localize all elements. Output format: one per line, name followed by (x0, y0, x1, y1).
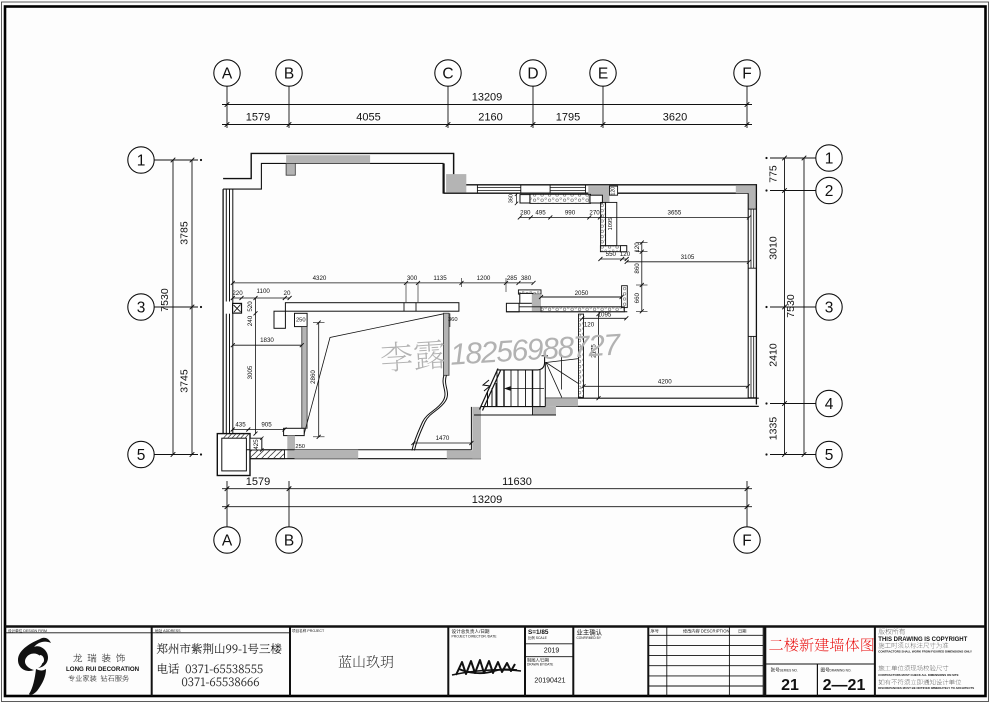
svg-text:2160: 2160 (478, 112, 502, 124)
svg-text:C: C (442, 66, 453, 83)
svg-text:S=1/85: S=1/85 (528, 629, 549, 636)
wall: right exterior wall (755, 184, 757, 404)
wall: gray pier left of lower landing (472, 407, 481, 459)
wall: top-left room inner outline (223, 163, 444, 189)
dim 1095 under cabinet (582, 317, 626, 319)
stair direction arrow (504, 386, 511, 391)
svg-text:3010: 3010 (768, 236, 780, 260)
dim 3105 (627, 261, 749, 263)
wall: 360 gray stub under beam right end (444, 313, 450, 375)
svg-text:THIS DRAWING IS COPYRIGHT: THIS DRAWING IS COPYRIGHT (878, 637, 967, 643)
svg-text:4: 4 (825, 396, 834, 413)
dim vertical 520/240/3005 (255, 298, 257, 434)
bottom axis circles A,B,F (214, 527, 240, 553)
wall: foot of E-wall (hatched) (600, 246, 626, 252)
svg-text:120: 120 (584, 322, 595, 329)
wall: gray corner top-right (F) (736, 186, 757, 193)
svg-text:1100: 1100 (257, 288, 271, 295)
copyright cell (879, 628, 905, 634)
svg-text:905: 905 (261, 422, 272, 429)
stair treads (496, 370, 498, 407)
gray step under stairs (533, 406, 557, 414)
wall: top-left room outer outline (223, 153, 454, 184)
svg-text:3005: 3005 (247, 365, 254, 379)
cabinet: right vertical panel (622, 286, 628, 308)
dim 1830 (233, 344, 302, 346)
window break / pier at row 3 on left wall (224, 302, 232, 314)
existing wall diagonal-hatched segment (250, 450, 285, 459)
wall: gray corner block left of kitchen (446, 174, 466, 192)
svg-text:7530: 7530 (159, 288, 171, 312)
svg-text:修改内容 DESCRIPTION: 修改内容 DESCRIPTION (683, 628, 730, 635)
svg-text:2860: 2860 (310, 370, 317, 384)
svg-text:3620: 3620 (663, 112, 687, 124)
left axis circles 1,3,5 (128, 147, 154, 173)
dim 2860 (318, 323, 320, 437)
window: right wall window 1 (750, 209, 752, 268)
right dimension lines (784, 158, 786, 455)
gray bottom wall segment (295, 450, 359, 459)
svg-text:3745: 3745 (179, 369, 191, 393)
svg-text:1795: 1795 (556, 112, 580, 124)
svg-text:7530: 7530 (785, 294, 797, 318)
svg-text:DISCREPANCIES MUST BE NOTIFIED: DISCREPANCIES MUST BE NOTIFIED IMMEDIATE… (878, 686, 974, 690)
sight-line diagonals across living room (304, 314, 443, 434)
svg-text:D: D (527, 66, 538, 83)
svg-text:序号: 序号 (651, 628, 659, 635)
svg-text:3655: 3655 (668, 209, 682, 216)
svg-text:4200: 4200 (658, 378, 672, 385)
svg-text:220: 220 (232, 290, 243, 297)
svg-text:270: 270 (589, 209, 600, 216)
svg-text:300: 300 (407, 275, 418, 282)
svg-text:250: 250 (296, 317, 306, 323)
svg-text:775: 775 (768, 165, 780, 183)
svg-text:1830: 1830 (260, 337, 274, 344)
wall: bottom band of right room (545, 397, 759, 399)
wall: end post right (white box in gray) (590, 195, 602, 203)
cabinet: top mini rect (518, 290, 541, 294)
svg-text:PROJECT DIRECTOR /DATE: PROJECT DIRECTOR /DATE (452, 634, 498, 638)
svg-text:425: 425 (253, 439, 260, 450)
svg-text:21: 21 (781, 677, 799, 694)
wall: 250 interior gray wall (302, 327, 307, 429)
dim 1470 (413, 442, 471, 444)
svg-text:E: E (598, 66, 608, 83)
lower flight treads (487, 392, 489, 407)
svg-text:DRAWING NO.: DRAWING NO. (830, 669, 852, 673)
svg-text:地址 ADDRESS: 地址 ADDRESS (155, 628, 181, 633)
dim row above beam: 4320/300/1135/1200/285/380 (233, 282, 534, 284)
svg-text:1135: 1135 (433, 275, 447, 282)
svg-text:B: B (284, 66, 294, 83)
svg-text:CONFIRMED BY: CONFIRMED BY (577, 636, 602, 640)
svg-text:860: 860 (634, 263, 641, 274)
svg-text:1579: 1579 (246, 476, 270, 488)
svg-text:1579: 1579 (246, 112, 270, 124)
hatch on flue top band (224, 434, 250, 438)
wall: small box with 120 label (610, 186, 618, 195)
window: kitchen window 1 (477, 187, 520, 189)
wall: end post left (520, 195, 530, 203)
svg-text:设计单位 DESIGN FIRM: 设计单位 DESIGN FIRM (8, 628, 47, 633)
dim 4200 (584, 385, 748, 387)
svg-text:280: 280 (520, 209, 531, 216)
wall: bottom band of left room (246, 449, 471, 451)
window: right wall window 2 (750, 336, 752, 397)
svg-text:F: F (742, 533, 751, 550)
wall: stair right new wall (hatched) (579, 314, 584, 397)
column box with cross at left wall row 3 (233, 303, 242, 313)
svg-text:285: 285 (507, 275, 518, 282)
beam across living room at row 3 (285, 303, 459, 312)
svg-text:3: 3 (825, 300, 834, 317)
svg-text:SERIES NO.: SERIES NO. (780, 669, 798, 673)
stair break line (480, 369, 499, 410)
svg-text:20190421: 20190421 (534, 678, 565, 685)
cabinet: left foot (506, 303, 519, 312)
left dimension lines (172, 160, 174, 455)
svg-text:1: 1 (825, 151, 834, 168)
svg-text:550: 550 (606, 251, 617, 258)
wall: 250 interior wall top box (295, 313, 308, 326)
svg-text:13209: 13209 (472, 92, 503, 104)
revision table (666, 627, 668, 697)
svg-text:240: 240 (247, 315, 254, 326)
svg-text:A: A (222, 66, 233, 83)
wall: gray corner block at kitchen right / E column (588, 186, 609, 203)
svg-text:比例 SCALE: 比例 SCALE (528, 635, 548, 640)
curved wall (wavy screen) (414, 375, 447, 450)
dim kitchen 280/495/990/270/3655 (520, 216, 749, 218)
stairs outline (481, 406, 545, 408)
svg-text:项目名称 PROJECT: 项目名称 PROJECT (292, 628, 325, 633)
svg-text:A: A (222, 533, 233, 550)
svg-text:5: 5 (825, 447, 834, 464)
svg-text:2—21: 2—21 (823, 677, 866, 694)
bottom dimension lines (222, 488, 752, 490)
dragon logo (18, 638, 51, 671)
svg-text:11630: 11630 (502, 476, 532, 488)
cabinet: hatched base band (519, 306, 622, 308)
svg-text:2410: 2410 (768, 343, 780, 367)
svg-text:1: 1 (137, 153, 146, 170)
svg-text:120: 120 (611, 187, 617, 196)
svg-text:495: 495 (535, 209, 546, 216)
wall: vertical new wall at E column (hatched+white) (601, 202, 606, 245)
svg-text:1095: 1095 (608, 218, 614, 231)
svg-text:LONG RUI DECORATION: LONG RUI DECORATION (66, 666, 140, 673)
svg-text:F: F (742, 66, 751, 83)
wall: new masonry band below kitchen windows (hatched) (530, 194, 591, 203)
svg-text:250: 250 (295, 444, 305, 450)
wall: bottom-left exterior box (flue) (217, 434, 250, 476)
svg-text:360: 360 (448, 317, 458, 323)
svg-text:380: 380 (521, 275, 532, 282)
right axis circles 1-5 (816, 145, 842, 171)
gray bottom wall segment right (447, 450, 481, 458)
svg-text:360: 360 (508, 194, 514, 203)
title block frame (5, 625, 986, 628)
svg-text:2019: 2019 (544, 648, 560, 655)
svg-text:990: 990 (565, 209, 576, 216)
svg-text:1200: 1200 (477, 275, 491, 282)
dim 220/1100/20 (233, 297, 290, 299)
svg-text:120: 120 (634, 242, 641, 253)
dim 435/905/425 (233, 429, 285, 431)
cabinet: white square (520, 293, 533, 303)
window: left wall glazing lines (222, 189, 224, 434)
watermark phone number (380, 328, 622, 376)
svg-text:660: 660 (634, 292, 641, 303)
svg-text:CONTRACTORS SHALL WORK FROM FI: CONTRACTORS SHALL WORK FROM FIGURED DIME… (878, 649, 972, 653)
svg-text:20: 20 (284, 290, 291, 297)
svg-text:5: 5 (137, 447, 146, 464)
wall: kitchen top band (454, 184, 757, 186)
stair winder fan lines (546, 359, 579, 363)
wall: gray infill band in top wall (286, 155, 370, 163)
drawing title cell (red) (769, 638, 873, 652)
svg-text:4055: 4055 (356, 112, 380, 124)
svg-text:1470: 1470 (436, 435, 450, 442)
svg-text:CONTRACTORS MUST CHECK ALL DIM: CONTRACTORS MUST CHECK ALL DIMENSIONS ON… (878, 673, 958, 677)
svg-text:13209: 13209 (472, 494, 503, 506)
svg-text:B: B (284, 533, 294, 550)
dim vertical 120/860/660 (641, 243, 643, 312)
cabinet: gray block (532, 294, 541, 311)
svg-text:2: 2 (825, 183, 834, 200)
svg-text:520: 520 (247, 301, 254, 312)
svg-text:3785: 3785 (179, 221, 191, 245)
wall: right wall of top-left room (inner heavy line) (443, 163, 445, 193)
window: kitchen window 2 (550, 187, 585, 189)
svg-text:120: 120 (620, 251, 631, 258)
dim 550/120 (600, 258, 626, 260)
wall: 250 wall bottom step box (284, 428, 305, 435)
svg-text:DRAWN BY/DATE: DRAWN BY/DATE (527, 663, 553, 667)
beam left step box (274, 311, 285, 328)
svg-text:3105: 3105 (681, 254, 695, 261)
svg-text:1335: 1335 (768, 417, 780, 441)
cabinet: counter top line (541, 296, 622, 298)
svg-text:4320: 4320 (313, 275, 327, 282)
svg-text:2050: 2050 (575, 290, 589, 297)
top dimension lines (222, 104, 752, 106)
dim 2175 (598, 314, 600, 398)
svg-text:435: 435 (235, 422, 246, 429)
svg-text:3: 3 (137, 300, 146, 317)
top axis circles A-F (214, 60, 240, 86)
wall: gray stub below top wall (286, 163, 295, 175)
